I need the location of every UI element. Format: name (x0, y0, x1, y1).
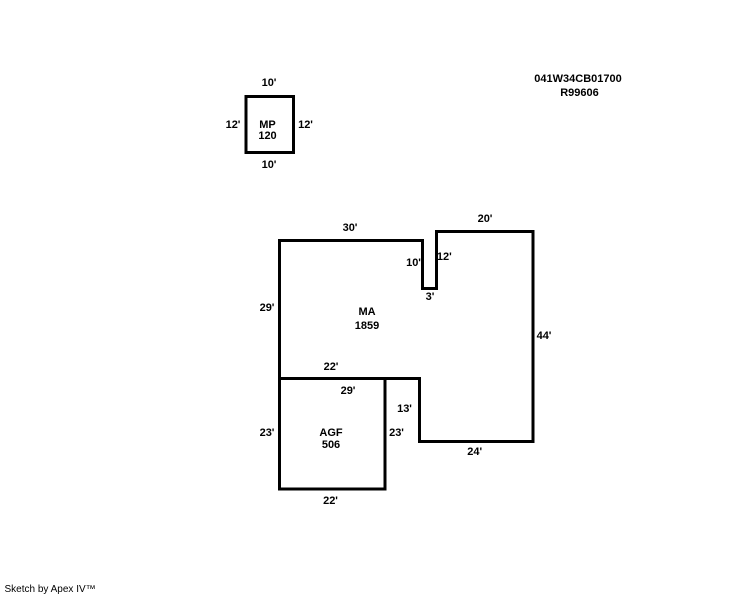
footer sketch credit (5, 585, 96, 595)
label 506 (322, 440, 340, 451)
label 120 (258, 131, 276, 142)
label 10' MP bottom (262, 160, 277, 171)
label 22' AGF bottom (323, 496, 338, 507)
header parcel number (534, 74, 621, 85)
MA polygon (main area outline) (280, 232, 534, 442)
label MP (259, 120, 276, 131)
label 10' notch (406, 258, 421, 269)
label 10' MP top (262, 78, 277, 89)
label 23' right (389, 428, 404, 439)
label 29' left (260, 303, 275, 314)
MP rectangle (misc porch) (246, 97, 294, 153)
header R number (560, 88, 599, 99)
label 1859 (355, 321, 379, 332)
label 23' left (260, 428, 275, 439)
label 13' (397, 404, 412, 415)
label 22' upper (324, 362, 339, 373)
label 12' MP right (298, 120, 313, 131)
label 12' notch (437, 252, 452, 263)
label 29' lower (341, 386, 356, 397)
label MA (358, 307, 375, 318)
label 30' (343, 223, 358, 234)
label AGF (319, 428, 342, 439)
label 12' MP left (226, 120, 241, 131)
AGF rectangle (attached garage) (280, 379, 386, 490)
label 24' (467, 447, 482, 458)
label 3' (426, 292, 435, 303)
label 20' (478, 214, 493, 225)
label 44' (537, 331, 552, 342)
